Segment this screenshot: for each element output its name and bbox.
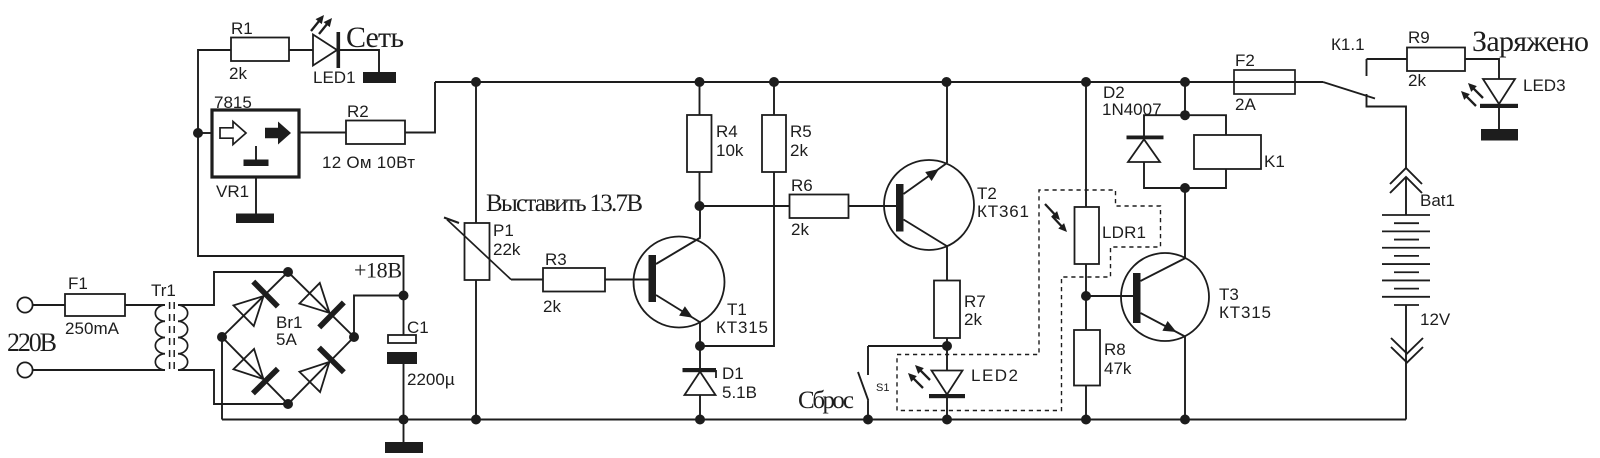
label R9	[1408, 28, 1430, 47]
ground symbol below VR1	[236, 214, 274, 224]
label KT315 of T1	[716, 318, 768, 337]
svg-text:5.1В: 5.1В	[722, 383, 757, 402]
label S1	[876, 382, 889, 394]
label 2k of R6	[791, 220, 809, 239]
junction top rail LDR1	[1081, 77, 1091, 87]
label LED1	[313, 68, 356, 87]
svg-text:R8: R8	[1104, 340, 1126, 359]
resistor R7	[934, 281, 960, 339]
junction top rail R5	[769, 77, 779, 87]
potentiometer P1	[465, 223, 490, 280]
resistor R3	[543, 268, 605, 292]
svg-text:LED1: LED1	[313, 68, 356, 87]
node: 220V input terminal upper	[17, 297, 32, 312]
P1 wiper arrow	[444, 218, 511, 280]
node: 220V input terminal lower	[17, 362, 32, 377]
svg-text:12V: 12V	[1420, 310, 1451, 329]
VR1 output arrow symbol	[265, 122, 291, 145]
resistor R8	[1074, 330, 1100, 386]
junction T3 emitter ground	[1180, 415, 1190, 425]
label 47k	[1104, 359, 1132, 378]
wire +18V node to capacitor C1	[403, 296, 405, 336]
svg-text:Сброс: Сброс	[798, 387, 854, 414]
svg-text:R5: R5	[790, 122, 812, 141]
svg-text:К1.1: К1.1	[1331, 35, 1365, 54]
label Bat1	[1420, 191, 1455, 210]
label 2k of R3	[543, 297, 561, 316]
junction C1 ground	[399, 415, 409, 425]
label 12 Om 10Wt	[322, 153, 415, 172]
svg-text:R3: R3	[545, 250, 567, 269]
wire K1 to bottom node	[1185, 169, 1226, 188]
label 2k of R5	[790, 141, 808, 160]
wire R3 to T1 base	[605, 279, 649, 281]
svg-text:12 Ом 10Вт: 12 Ом 10Вт	[322, 153, 415, 172]
svg-text:P1: P1	[493, 221, 514, 240]
wire chevron to battery plates	[1405, 177, 1407, 215]
svg-text:Выставить 13.7В: Выставить 13.7В	[486, 190, 643, 217]
wire K1.1 fixed contact to R9	[1367, 58, 1408, 60]
svg-text:2k: 2k	[543, 297, 561, 316]
wire transformer secondary bottom to bridge AC bottom	[178, 370, 288, 404]
label Tr1	[151, 281, 176, 300]
wire P1 wiper to R3	[511, 279, 543, 281]
svg-text:КТ315: КТ315	[1219, 303, 1271, 322]
svg-text:+18В: +18В	[354, 258, 402, 283]
switch S1	[858, 346, 868, 420]
junction T1 emitter node	[695, 341, 705, 351]
svg-text:T3: T3	[1219, 285, 1239, 304]
svg-text:КТ361: КТ361	[977, 202, 1029, 221]
LED2 emission arrows	[908, 365, 930, 388]
wire VR1 output to R2	[299, 132, 346, 134]
label R6	[791, 176, 813, 195]
svg-text:5A: 5A	[276, 330, 297, 349]
svg-text:R1: R1	[231, 19, 253, 38]
label R8	[1104, 340, 1126, 359]
junction T3 base node	[1081, 291, 1091, 301]
wire LED2 to ground rail	[946, 398, 948, 420]
junction +18V node	[399, 291, 409, 301]
junction R7 LED2 node	[942, 341, 952, 351]
label R7	[964, 292, 986, 311]
wire base node to T3 base	[1086, 295, 1133, 297]
transistor T2 KT361	[884, 160, 974, 250]
wire VR1 input	[198, 132, 212, 134]
fuse F2	[1234, 70, 1295, 94]
label R4	[716, 122, 738, 141]
resistor R2	[346, 121, 405, 145]
junction bridge left vertex	[217, 332, 227, 342]
svg-text:C1: C1	[407, 318, 429, 337]
wire top rail to R4	[699, 82, 701, 115]
bridge rectifier Br1 diamond	[222, 272, 354, 404]
label D1	[722, 364, 744, 383]
wire T1 collector node to R6	[700, 205, 790, 207]
resistor R1	[231, 38, 289, 62]
ground symbol after LED1	[363, 72, 396, 83]
svg-text:T1: T1	[727, 300, 747, 319]
photoresistor LDR1	[1075, 207, 1100, 264]
wire R6 to T2 base	[849, 205, 897, 207]
wire LED3 to ground bar	[1498, 108, 1500, 129]
battery negative arrow chevrons	[1391, 338, 1423, 363]
label P1	[493, 221, 514, 240]
junction D1 ground	[695, 415, 705, 425]
label T1	[727, 300, 747, 319]
wire P1 bottom to ground rail	[475, 280, 477, 420]
transistor T3 KT315	[1121, 253, 1209, 341]
label R5	[790, 122, 812, 141]
label +18B net	[354, 258, 402, 283]
label 5.1B	[722, 383, 757, 402]
wire T2 collector to R7	[946, 247, 948, 281]
wire top rail to LDR1	[1085, 82, 1087, 207]
junction top rail T2	[942, 77, 952, 87]
junction bridge bottom vertex	[283, 399, 293, 409]
label VR1	[216, 182, 249, 201]
wire upper mains terminal to fuse F1	[33, 304, 65, 306]
wire VR1 ground pin	[255, 177, 257, 214]
svg-text:10k: 10k	[716, 141, 744, 160]
wire top node to relay K1	[1185, 115, 1226, 135]
wire bridge minus output to ground rail	[221, 337, 223, 420]
capacitor C1	[387, 335, 417, 364]
resistor R6	[790, 195, 849, 219]
top supply rail	[435, 81, 1323, 83]
label 2k of R7	[964, 310, 982, 329]
label 12V	[1420, 310, 1451, 329]
svg-text:LED3: LED3	[1523, 76, 1566, 95]
wire F1 to transformer primary	[125, 304, 165, 306]
label 5A	[276, 330, 297, 349]
svg-text:T2: T2	[977, 184, 997, 203]
relay coil K1	[1194, 135, 1261, 169]
svg-text:2200µ: 2200µ	[407, 370, 455, 389]
junction top rail to P1	[471, 77, 481, 87]
wire R9 to LED3	[1465, 59, 1499, 79]
resistor R4	[687, 115, 712, 172]
optocoupler dashed enclosure LED2-LDR1	[897, 190, 1161, 411]
label R3	[545, 250, 567, 269]
junction top rail R4	[695, 77, 705, 87]
svg-text:F1: F1	[68, 274, 88, 293]
wire top rail to D2-K1 top node	[1184, 82, 1186, 115]
junction bridge right vertex	[349, 332, 359, 342]
svg-text:47k: 47k	[1104, 359, 1132, 378]
svg-text:F2: F2	[1235, 51, 1255, 70]
resistor R9	[1407, 48, 1465, 72]
label 2200u	[407, 370, 455, 389]
label 7815	[214, 93, 252, 112]
junction top rail D2-K1 branch	[1180, 77, 1190, 87]
junction D2-K1 top node	[1180, 110, 1190, 120]
label LED2	[971, 366, 1018, 385]
svg-text:220В: 220В	[7, 328, 57, 357]
wire transformer secondary top to bridge AC top	[178, 272, 288, 305]
svg-text:S1: S1	[876, 382, 889, 394]
label 2k of R9	[1408, 71, 1426, 90]
label KT315 of T3	[1219, 303, 1271, 322]
svg-text:2k: 2k	[1408, 71, 1426, 90]
wire battery to lower chevron	[1405, 305, 1407, 352]
svg-text:2k: 2k	[229, 64, 247, 83]
wire +18V node up and left to VR1 input	[198, 133, 404, 296]
junction D2-K1 bottom node	[1180, 183, 1190, 193]
diode Br1 bottom-right	[297, 346, 346, 394]
wire T2 emitter to top rail	[946, 82, 948, 163]
ground rail (bottom)	[222, 419, 1406, 421]
wire D2 to bottom node	[1144, 162, 1185, 188]
label LED3	[1523, 76, 1566, 95]
junction bridge top vertex	[283, 267, 293, 277]
LDR1 light arrows	[1045, 204, 1067, 232]
svg-text:LED2: LED2	[971, 366, 1018, 385]
relay contact K1.1	[1323, 59, 1375, 99]
svg-text:LDR1: LDR1	[1102, 223, 1146, 242]
junction P1 ground	[471, 415, 481, 425]
svg-text:Заряжено: Заряжено	[1472, 25, 1589, 58]
svg-text:Bat1: Bat1	[1420, 191, 1455, 210]
wire LDR1 to base node	[1085, 264, 1087, 296]
svg-text:250mA: 250mA	[65, 319, 120, 338]
wire R7 to LED2 node	[946, 338, 948, 346]
junction VR1 input node	[193, 128, 203, 138]
label R2	[347, 102, 369, 121]
wire LED2 node to switch S1	[868, 345, 947, 347]
label LDR1	[1102, 223, 1146, 242]
battery Bat1 positive arrow chevrons	[1390, 168, 1422, 193]
wire T1 emitter to R5 bottom	[700, 172, 774, 346]
svg-text:VR1: VR1	[216, 182, 249, 201]
wire node to LED2	[946, 346, 948, 371]
label 2k of R1	[229, 64, 247, 83]
wire R8 to ground rail	[1085, 386, 1087, 420]
label C1	[407, 318, 429, 337]
wire top rail to R5	[773, 82, 775, 115]
label D2	[1103, 83, 1125, 102]
svg-text:КТ315: КТ315	[716, 318, 768, 337]
svg-text:2k: 2k	[964, 310, 982, 329]
svg-text:22k: 22k	[493, 240, 521, 259]
svg-text:2A: 2A	[1235, 95, 1256, 114]
wire T1 emitter riser	[699, 323, 701, 347]
svg-text:Tr1: Tr1	[151, 281, 176, 300]
label Br1	[276, 313, 302, 332]
zener diode D1	[683, 368, 717, 395]
svg-text:R6: R6	[791, 176, 813, 195]
svg-text:2k: 2k	[791, 220, 809, 239]
label Sbros (reset)	[798, 387, 854, 414]
VR1 input arrow symbol	[220, 122, 246, 145]
svg-text:D1: D1	[722, 364, 744, 383]
label Vystavit 13.7V	[486, 190, 643, 217]
svg-text:7815: 7815	[214, 93, 252, 112]
label 22k	[493, 240, 521, 259]
label K1	[1264, 152, 1285, 171]
LED3 emission arrows	[1461, 83, 1483, 106]
LED LED1	[313, 32, 340, 68]
LED LED3	[1480, 79, 1518, 108]
wire K1.1 to battery	[1367, 94, 1407, 168]
diode D2 1N4007	[1127, 136, 1164, 163]
svg-text:R9: R9	[1408, 28, 1430, 47]
wire T1 emitter to zener D1	[699, 346, 701, 368]
label R1	[231, 19, 253, 38]
junction T1 collector node	[695, 201, 705, 211]
junction LED2 ground	[942, 415, 952, 425]
label T2	[977, 184, 997, 203]
diode Br1 bottom-left	[231, 347, 280, 395]
junction R8 ground	[1081, 415, 1091, 425]
battery Bat1 plates	[1382, 215, 1430, 305]
wire base node to R8	[1085, 296, 1087, 330]
svg-text:K1: K1	[1264, 152, 1285, 171]
transformer Tr1	[155, 302, 187, 374]
resistor R5	[762, 115, 786, 172]
svg-text:1N4007: 1N4007	[1102, 100, 1162, 119]
wire lower mains terminal to transformer primary	[33, 369, 165, 371]
diode Br1 top-left	[231, 280, 279, 329]
voltage regulator U VR1 7815	[212, 110, 299, 177]
label T3	[1219, 285, 1239, 304]
wire battery to ground rail	[1405, 352, 1407, 420]
wire C1 to ground rail	[403, 364, 405, 420]
label 10k	[716, 141, 744, 160]
label 220B	[7, 328, 57, 357]
wire T3 collector riser	[1184, 188, 1186, 258]
VR1 internal ground symbol	[244, 146, 269, 166]
wire R1 to LED1	[289, 49, 313, 51]
svg-text:R4: R4	[716, 122, 738, 141]
wire VR1 input riser to R1	[198, 50, 231, 133]
wire R2 to top rail riser	[405, 82, 435, 133]
wire T3 emitter to ground rail	[1184, 337, 1186, 420]
wire LED1 to ground bar	[340, 50, 379, 72]
wire D1 to ground rail	[699, 395, 701, 420]
svg-text:2k: 2k	[790, 141, 808, 160]
ground symbol below LED3	[1481, 129, 1518, 141]
wire T1 collector riser	[699, 206, 701, 238]
LED1 emission arrows	[311, 15, 332, 34]
ground symbol below C1	[385, 420, 423, 454]
transistor T1 KT315	[634, 237, 725, 328]
label 250mA	[65, 319, 120, 338]
wire top rail to P1	[475, 82, 477, 223]
label Set' (mains) text	[346, 21, 404, 54]
wire top node to D2	[1144, 115, 1185, 136]
svg-text:R7: R7	[964, 292, 986, 311]
svg-text:R2: R2	[347, 102, 369, 121]
LED LED2	[929, 371, 965, 399]
wire bridge plus output to +18V node	[354, 296, 404, 338]
label F1	[68, 274, 88, 293]
label F2	[1235, 51, 1255, 70]
label K1.1	[1331, 35, 1365, 54]
label 2A	[1235, 95, 1256, 114]
label Zaryazheno (charged)	[1472, 25, 1589, 58]
diode Br1 top-right	[297, 281, 345, 330]
junction S1 ground	[863, 415, 873, 425]
label 1N4007	[1102, 100, 1162, 119]
wire R4 to T1 collector node	[699, 172, 701, 206]
label KT361 of T2	[977, 202, 1029, 221]
fuse F1	[65, 294, 125, 316]
